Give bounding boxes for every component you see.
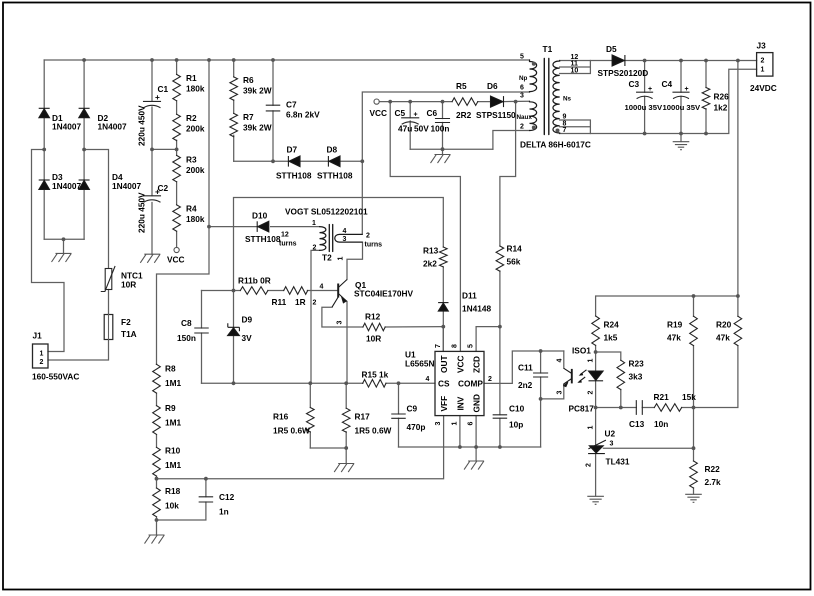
ground U1 GND (slash) — [464, 461, 484, 470]
opto LED ISO1 — [589, 371, 604, 380]
svg-text:470p: 470p — [407, 422, 426, 432]
svg-text:+: + — [155, 92, 160, 102]
transformer T2 core — [329, 225, 332, 252]
capacitor C7 — [266, 105, 279, 111]
svg-text:Ns: Ns — [563, 96, 572, 103]
svg-text:D6: D6 — [487, 81, 498, 91]
svg-text:1k5: 1k5 — [604, 333, 618, 343]
svg-text:STPS1150: STPS1150 — [476, 110, 516, 120]
svg-text:R8: R8 — [165, 364, 176, 374]
svg-text:1N4007: 1N4007 — [98, 122, 127, 132]
resistor R12 — [363, 323, 385, 331]
svg-text:2.7k: 2.7k — [705, 477, 722, 487]
wire R26 column — [705, 61, 707, 134]
svg-text:R23: R23 — [629, 359, 645, 369]
svg-text:STTH108: STTH108 — [276, 171, 312, 181]
wire C6 column — [442, 102, 444, 150]
transistor Q1 — [337, 284, 339, 298]
resistor R26 — [702, 88, 710, 110]
wire D10 row — [209, 226, 320, 228]
wire 24V sense drop — [737, 61, 739, 297]
svg-text:+: + — [155, 187, 160, 197]
svg-text:200k: 200k — [186, 165, 205, 175]
wire D4 column — [83, 150, 85, 240]
svg-text:R24: R24 — [604, 320, 620, 330]
svg-text:R16: R16 — [273, 412, 289, 422]
diode D8 — [327, 156, 329, 167]
wire T1 pin2 return — [493, 131, 530, 150]
wire bridge bottom — [44, 239, 84, 253]
svg-text:2R2: 2R2 — [456, 110, 472, 120]
svg-text:10n: 10n — [654, 419, 668, 429]
wire D3 column — [43, 150, 45, 240]
capacitor C3 — [637, 92, 653, 98]
capacitor C11 — [534, 373, 548, 377]
svg-text:6: 6 — [468, 422, 475, 426]
wire R16 R17 bottom tie — [310, 448, 346, 464]
svg-text:ZCD: ZCD — [472, 356, 482, 373]
svg-text:4: 4 — [557, 359, 564, 363]
wire D2 column — [83, 60, 85, 150]
resistor R22 — [690, 461, 698, 488]
resistor R3 — [173, 155, 181, 181]
capacitor C2 — [144, 196, 161, 202]
resistor R4 — [173, 205, 181, 231]
svg-text:U2: U2 — [605, 429, 616, 439]
svg-text:VFF: VFF — [439, 396, 449, 412]
phase dot T1 pin2 — [532, 126, 536, 130]
svg-text:STPS20120D: STPS20120D — [598, 68, 649, 78]
wire U1 bottom row — [399, 446, 541, 448]
svg-text:PC817: PC817 — [569, 404, 595, 414]
svg-text:R26: R26 — [714, 92, 730, 102]
ground TL431 (earth) — [587, 496, 604, 504]
svg-text:1000u 35V: 1000u 35V — [625, 103, 663, 112]
svg-text:STC04IE170HV: STC04IE170HV — [354, 289, 413, 299]
svg-text:7: 7 — [435, 344, 442, 348]
resistor R15 — [363, 380, 386, 388]
svg-text:VCC: VCC — [167, 255, 185, 265]
wire C9 column — [398, 383, 400, 447]
svg-text:STTH108: STTH108 — [245, 234, 281, 244]
svg-text:39k 2W: 39k 2W — [243, 123, 272, 133]
svg-text:R11b 0R: R11b 0R — [238, 276, 271, 286]
wire top HV bus — [44, 59, 529, 61]
svg-text:R7: R7 — [243, 112, 254, 122]
svg-text:220u 450V: 220u 450V — [137, 192, 147, 233]
svg-text:+: + — [414, 112, 418, 119]
svg-text:R9: R9 — [165, 403, 176, 413]
svg-text:R13: R13 — [423, 246, 439, 256]
wire C3 column — [644, 61, 646, 134]
svg-text:24VDC: 24VDC — [750, 83, 777, 93]
svg-text:STTH108: STTH108 — [317, 171, 353, 181]
resistor R16 — [306, 408, 314, 433]
resistor R7 — [230, 113, 238, 136]
wire AC segment 2 — [48, 150, 109, 361]
svg-text:1R: 1R — [295, 297, 306, 307]
wire U1 INV stub — [459, 416, 461, 447]
svg-text:2: 2 — [366, 233, 370, 240]
capacitor C4 — [673, 92, 689, 98]
svg-text:R22: R22 — [705, 464, 721, 474]
wire R23 branch — [596, 352, 621, 408]
wire R22 column — [693, 448, 695, 494]
wire R19 column — [693, 296, 695, 448]
resistor R17 — [342, 408, 350, 432]
wire U1 GND stub — [475, 416, 477, 461]
svg-text:CS: CS — [438, 379, 450, 389]
wire output top rail — [590, 60, 756, 62]
wire D9 column — [233, 291, 235, 384]
phase dot T1 secondary — [556, 129, 560, 133]
svg-text:2: 2 — [586, 463, 593, 467]
svg-text:R20: R20 — [716, 320, 732, 330]
svg-text:1k2: 1k2 — [714, 103, 728, 113]
svg-text:2n2: 2n2 — [518, 380, 533, 390]
wire Q1 emitter column — [346, 302, 348, 384]
svg-text:R12: R12 — [365, 312, 381, 322]
diode D1 — [39, 107, 50, 109]
wire U1 OUT stub — [442, 327, 444, 352]
svg-text:2: 2 — [520, 124, 524, 131]
wire T1 secondary stubs — [560, 61, 591, 134]
svg-text:F2: F2 — [121, 317, 131, 327]
svg-text:160-550VAC: 160-550VAC — [32, 372, 79, 382]
wire R1-R4 column — [176, 60, 178, 247]
ground C2 (slash) — [140, 254, 160, 263]
capacitor C13 — [636, 401, 642, 415]
wire D1 column — [43, 60, 45, 150]
svg-text:2: 2 — [40, 359, 44, 366]
wire C5 column — [409, 102, 411, 150]
opto light arrows — [579, 370, 587, 382]
svg-text:C3: C3 — [629, 79, 640, 89]
resistor R9 — [153, 406, 161, 435]
connector J1 — [33, 344, 49, 368]
svg-text:3: 3 — [610, 441, 614, 448]
svg-text:180k: 180k — [186, 84, 205, 94]
transformer T1 aux Naux winding — [530, 101, 537, 130]
svg-text:L6565N: L6565N — [405, 359, 435, 369]
resistor R8 — [153, 364, 161, 393]
svg-text:D5: D5 — [606, 44, 617, 54]
svg-text:COMP: COMP — [458, 379, 483, 389]
wire C12 branch — [157, 479, 206, 520]
svg-text:C12: C12 — [219, 492, 235, 502]
svg-text:2: 2 — [588, 391, 595, 395]
wire CS row — [202, 382, 436, 384]
svg-text:R21: R21 — [654, 392, 670, 402]
wire TL431 ref row — [603, 447, 693, 449]
svg-text:R3: R3 — [186, 155, 197, 165]
svg-text:1: 1 — [588, 426, 595, 430]
ground R16 R17 (slash) — [334, 464, 354, 473]
resistor R24 — [592, 316, 600, 345]
ground output rail (earth) — [673, 142, 690, 150]
wire C10 column — [499, 327, 501, 447]
wire feedback top row — [596, 296, 738, 316]
svg-text:GND: GND — [472, 394, 482, 412]
svg-text:DELTA 86H-6017C: DELTA 86H-6017C — [520, 140, 591, 150]
svg-text:1: 1 — [40, 351, 44, 358]
wire base drive row — [202, 290, 338, 292]
svg-text:220u 450V: 220u 450V — [137, 105, 147, 146]
fuse F2 — [104, 315, 113, 340]
svg-text:180k: 180k — [186, 214, 205, 224]
svg-text:R4: R4 — [186, 204, 197, 214]
capacitor C1 — [144, 101, 161, 107]
wire ZCD jog — [476, 327, 500, 352]
capacitor C10 — [493, 415, 506, 418]
svg-text:39k 2W: 39k 2W — [243, 86, 272, 96]
svg-text:1R5 0.6W: 1R5 0.6W — [355, 426, 392, 436]
svg-text:D8: D8 — [327, 145, 338, 155]
wire R24 to LED column — [595, 345, 597, 407]
ground C5 C6 (slash) — [431, 155, 451, 164]
resistor R11b — [240, 287, 268, 295]
svg-text:TL431: TL431 — [606, 457, 630, 467]
svg-text:D7: D7 — [287, 145, 298, 155]
svg-text:200k: 200k — [186, 124, 205, 134]
svg-text:10R: 10R — [366, 334, 381, 344]
capacitor C9 — [392, 414, 405, 418]
svg-text:INV: INV — [455, 396, 465, 410]
svg-text:1N4007: 1N4007 — [52, 122, 81, 132]
opto transistor — [571, 369, 573, 384]
svg-text:4: 4 — [320, 284, 324, 291]
IC U1 L6565N box — [435, 351, 484, 415]
wire C8 column — [201, 291, 203, 384]
svg-text:3: 3 — [337, 321, 344, 325]
svg-text:1000u 35V: 1000u 35V — [663, 103, 701, 112]
svg-text:10R: 10R — [121, 280, 136, 290]
svg-text:C9: C9 — [407, 404, 418, 414]
resistor R5 — [452, 98, 478, 106]
svg-text:1n: 1n — [219, 507, 229, 517]
svg-text:5: 5 — [520, 54, 524, 61]
svg-text:1: 1 — [312, 220, 316, 227]
svg-text:1N4007: 1N4007 — [52, 181, 81, 191]
svg-text:R19: R19 — [667, 320, 683, 330]
svg-text:R2: R2 — [186, 113, 197, 123]
svg-text:3: 3 — [557, 391, 564, 395]
svg-text:T1A: T1A — [121, 329, 137, 339]
svg-text:VCC: VCC — [455, 355, 465, 373]
svg-text:C6: C6 — [427, 108, 438, 118]
wire R16 column — [309, 383, 311, 448]
svg-text:J1: J1 — [33, 331, 43, 341]
svg-text:R10: R10 — [165, 446, 181, 456]
svg-text:R18: R18 — [165, 486, 181, 496]
svg-text:R1: R1 — [186, 73, 197, 83]
wire output bottom rail — [590, 69, 756, 133]
wire R8 R9 R10 R18 column — [156, 364, 158, 535]
svg-text:C13: C13 — [629, 419, 645, 429]
junction dots — [82, 58, 86, 62]
wire C11 column — [540, 351, 542, 399]
resistor R23 — [617, 360, 625, 389]
resistor R14 — [496, 246, 504, 271]
svg-text:47k: 47k — [716, 333, 730, 343]
wire VCC rail — [379, 100, 529, 102]
transformer T1 core — [544, 59, 549, 135]
svg-text:3V: 3V — [242, 333, 253, 343]
capacitor C6 — [436, 119, 450, 123]
svg-text:J3: J3 — [757, 41, 767, 51]
resistor R21 — [654, 404, 681, 412]
phase dot T1 pin5 — [532, 62, 536, 66]
wire snubber row — [234, 160, 363, 162]
svg-text:R11: R11 — [272, 297, 287, 307]
wire R15 leads — [362, 382, 364, 384]
svg-text:R15 1k: R15 1k — [362, 370, 389, 380]
wire PC817 feedback row — [596, 346, 738, 408]
wire opto collector — [563, 351, 565, 368]
wire C5 C6 ground row — [410, 149, 493, 154]
wire C1bottom-R2R3 tie — [152, 148, 177, 150]
svg-text:R6: R6 — [243, 75, 254, 85]
svg-text:D9: D9 — [242, 315, 253, 325]
transformer T1 secondary Ns winding — [553, 61, 560, 134]
svg-text:Naux: Naux — [517, 114, 533, 121]
svg-text:12: 12 — [281, 232, 289, 239]
wire Q1 collector to T2 pin3 — [347, 242, 363, 279]
svg-text:5: 5 — [468, 344, 475, 348]
svg-text:1M1: 1M1 — [165, 378, 182, 388]
resistor R6 — [230, 77, 238, 100]
svg-text:2: 2 — [761, 58, 765, 65]
svg-text:turns: turns — [365, 242, 383, 249]
wire R17 column — [345, 383, 347, 448]
transformer T1 primary Np winding — [530, 60, 537, 92]
diode D10 — [256, 221, 258, 232]
svg-text:50V: 50V — [414, 124, 429, 134]
svg-text:OUT: OUT — [439, 355, 449, 373]
svg-text:3: 3 — [435, 422, 442, 426]
svg-text:7: 7 — [563, 127, 567, 134]
svg-text:D10: D10 — [252, 211, 268, 221]
svg-text:1: 1 — [588, 359, 595, 363]
wire HV sense drop to R8 divider — [157, 60, 210, 364]
svg-text:C10: C10 — [509, 404, 525, 414]
svg-text:3: 3 — [343, 236, 347, 243]
svg-text:15k: 15k — [682, 392, 696, 402]
svg-text:1N4148: 1N4148 — [462, 304, 491, 314]
zener D9 — [228, 323, 240, 331]
transformer T2 primary winding — [320, 227, 326, 251]
svg-text:D11: D11 — [462, 291, 477, 301]
resistor R18 — [153, 488, 161, 517]
wire R14 column — [500, 102, 516, 327]
svg-text:100n: 100n — [431, 124, 450, 134]
svg-text:turns: turns — [279, 241, 297, 248]
connector J3 — [757, 53, 773, 77]
svg-text:1: 1 — [338, 257, 345, 261]
svg-text:+: + — [648, 86, 652, 93]
wire C7 column — [272, 60, 274, 161]
svg-text:10p: 10p — [509, 420, 523, 430]
diode D3 — [39, 179, 50, 181]
resistor R10 — [153, 447, 161, 476]
capacitor C5 — [402, 118, 419, 124]
wire C4 column — [680, 61, 682, 142]
diode D11 — [438, 302, 448, 304]
svg-text:1R5 0.6W: 1R5 0.6W — [273, 426, 310, 436]
terminal VCC aux — [374, 99, 379, 104]
resistor R20 — [734, 316, 742, 345]
diode D2 — [79, 107, 90, 109]
svg-text:47u: 47u — [398, 124, 412, 134]
svg-text:2: 2 — [313, 300, 317, 307]
resistor R19 — [690, 316, 698, 345]
svg-text:10k: 10k — [165, 501, 179, 511]
svg-text:1: 1 — [452, 422, 459, 426]
terminal VCC divider — [174, 247, 179, 252]
svg-text:C7: C7 — [286, 100, 297, 110]
diode D5 — [624, 55, 626, 66]
resistor R2 — [173, 114, 181, 140]
wire VCC distribution — [390, 102, 460, 352]
svg-text:8: 8 — [452, 344, 459, 348]
transformer T2 secondary hairpin — [335, 234, 362, 242]
svg-text:150n: 150n — [177, 333, 196, 343]
wire VCC loop top — [234, 198, 444, 291]
diode D6 — [503, 96, 505, 107]
svg-text:4: 4 — [426, 376, 430, 383]
svg-text:+: + — [685, 86, 689, 93]
svg-text:2k2: 2k2 — [423, 259, 437, 269]
ground R22 (earth) — [685, 494, 702, 502]
svg-text:1: 1 — [761, 67, 765, 74]
wire TL431 cathode anode — [595, 408, 597, 497]
svg-text:2: 2 — [488, 376, 492, 383]
wire drain riser and T1 pin6 — [362, 92, 529, 234]
diode D7 — [287, 156, 289, 167]
svg-text:10: 10 — [571, 67, 579, 74]
svg-text:2: 2 — [313, 245, 317, 252]
svg-text:C8: C8 — [181, 318, 192, 328]
svg-text:ISO1: ISO1 — [572, 346, 591, 356]
svg-text:4: 4 — [343, 228, 347, 235]
svg-text:VCC: VCC — [370, 108, 388, 118]
ground R18 (slash) — [145, 535, 165, 544]
ground bridge (slash) — [52, 253, 72, 262]
svg-text:R17: R17 — [355, 412, 371, 422]
svg-text:1M1: 1M1 — [165, 418, 182, 428]
svg-text:R14: R14 — [507, 244, 523, 254]
resistor R13 — [439, 247, 447, 267]
wire AC segment 1 — [32, 150, 65, 352]
svg-text:47k: 47k — [667, 333, 681, 343]
capacitor C8 — [195, 328, 208, 333]
svg-text:6.8n 2kV: 6.8n 2kV — [286, 110, 320, 120]
svg-text:1N4007: 1N4007 — [112, 181, 141, 191]
svg-text:C4: C4 — [662, 79, 673, 89]
svg-text:C11: C11 — [518, 363, 533, 373]
svg-text:56k: 56k — [507, 257, 521, 267]
wire Q1 pin2 loop and R12 row — [322, 307, 443, 327]
svg-text:6: 6 — [520, 85, 524, 92]
svg-text:VOGT SL0512202101: VOGT SL0512202101 — [285, 207, 368, 217]
resistor R11 — [284, 287, 308, 295]
svg-text:T2: T2 — [322, 253, 332, 263]
diode D4 — [79, 179, 90, 181]
wire R6 R7 column — [233, 60, 235, 161]
svg-text:R5: R5 — [456, 81, 467, 91]
svg-text:T1: T1 — [543, 44, 553, 54]
svg-text:Np: Np — [519, 75, 528, 82]
